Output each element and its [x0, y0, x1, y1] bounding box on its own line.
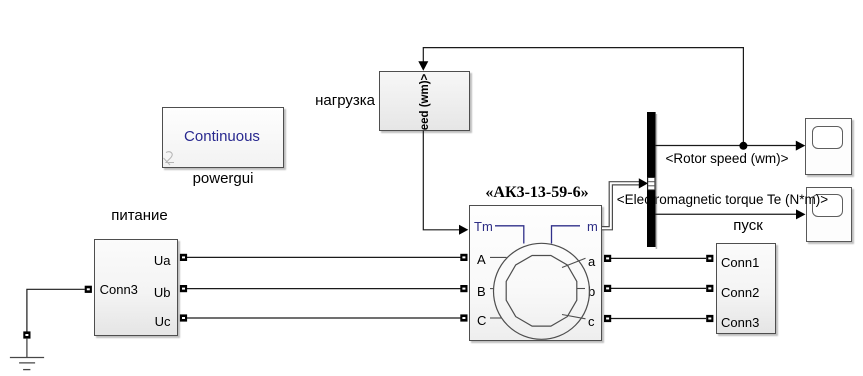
- bus selector bar: [647, 112, 656, 247]
- port square Conn1: [706, 255, 713, 262]
- port square Ua: [180, 254, 187, 261]
- label питание: [95, 208, 184, 225]
- machine stub C: [490, 317, 502, 319]
- port square A: [460, 254, 467, 261]
- port square b: [604, 285, 611, 292]
- wire Uc to C: [187, 317, 461, 319]
- subsystem пуск: [716, 243, 776, 334]
- wire нагрузка to Tm: [423, 131, 459, 230]
- subsystem питание: [94, 239, 178, 337]
- port label m (machine): [587, 219, 598, 234]
- machine Tm port line: [495, 226, 524, 244]
- feedback wire rotor speed to нагрузка: [423, 48, 743, 146]
- junction dot: [739, 142, 747, 150]
- port label b: [588, 284, 595, 299]
- wire Ub to B: [187, 288, 461, 290]
- wire b to Conn2: [611, 287, 706, 289]
- port square Ub: [180, 285, 187, 292]
- port label Ua: [140, 253, 171, 268]
- machine stub B: [490, 288, 494, 290]
- wire Conn3 to ground: [27, 289, 85, 331]
- wire a to Conn1: [611, 257, 706, 259]
- arrow into scope1: [796, 141, 806, 151]
- arrow into Tm: [459, 225, 468, 235]
- signal label Electromagnetic torque: [617, 193, 828, 208]
- port square Uc: [180, 314, 187, 321]
- machine icon stator circle: [494, 243, 590, 339]
- port label Conn2: [721, 285, 759, 300]
- port label a: [588, 254, 595, 269]
- wire torque to scope2: [656, 213, 797, 215]
- port label Ub: [140, 285, 171, 300]
- ground port square: [23, 331, 30, 338]
- machine m port line: [552, 226, 581, 244]
- label нагрузка: [285, 93, 375, 110]
- port square a: [604, 255, 611, 262]
- machine name «АК3-13-59-6»: [462, 184, 612, 202]
- arrow into нагрузка: [418, 61, 428, 70]
- port label Tm: [474, 219, 493, 234]
- machine stub a: [562, 258, 586, 267]
- wire rotor speed to scope1: [656, 145, 797, 147]
- bus selector input marker: [648, 178, 655, 190]
- arrow into bus selector: [639, 178, 648, 188]
- wire Ua to A: [187, 256, 461, 258]
- port square B: [460, 285, 467, 292]
- powergui corner glyph: [164, 152, 175, 165]
- machine stub A: [490, 256, 507, 258]
- port square c: [604, 315, 611, 322]
- port label B: [477, 284, 486, 299]
- ground symbol: [10, 339, 44, 370]
- powergui block name: [162, 171, 284, 188]
- port label c: [588, 314, 595, 329]
- bus signal m to selector (double line): [602, 183, 640, 228]
- arrow into scope2: [796, 209, 806, 219]
- port label Conn1: [721, 255, 759, 270]
- scope 2 (torque): [806, 187, 852, 242]
- port label Uc: [140, 314, 171, 329]
- port label A: [477, 252, 486, 267]
- scope 1 (rotor speed): [805, 118, 852, 176]
- asynchronous machine block: [469, 205, 603, 341]
- label пуск: [718, 218, 778, 235]
- port square Conn3-пуск: [706, 315, 713, 322]
- machine icon rotor polygon: [506, 256, 577, 327]
- signal label Rotor speed: [666, 152, 789, 167]
- port label C: [477, 313, 486, 328]
- port label Conn3: [100, 282, 138, 297]
- block нагрузка (rotated fcn): [379, 71, 470, 131]
- powergui label Continuous: [161, 129, 283, 146]
- wire c to Conn3: [611, 318, 706, 320]
- port square Conn3 питание: [85, 286, 92, 293]
- port square Conn2: [706, 285, 713, 292]
- port square C: [460, 314, 467, 321]
- machine stub b: [577, 288, 585, 290]
- port label Conn3 (пуск): [721, 315, 759, 330]
- powergui block (Continuous): [162, 107, 284, 168]
- machine stub c: [562, 315, 586, 319]
